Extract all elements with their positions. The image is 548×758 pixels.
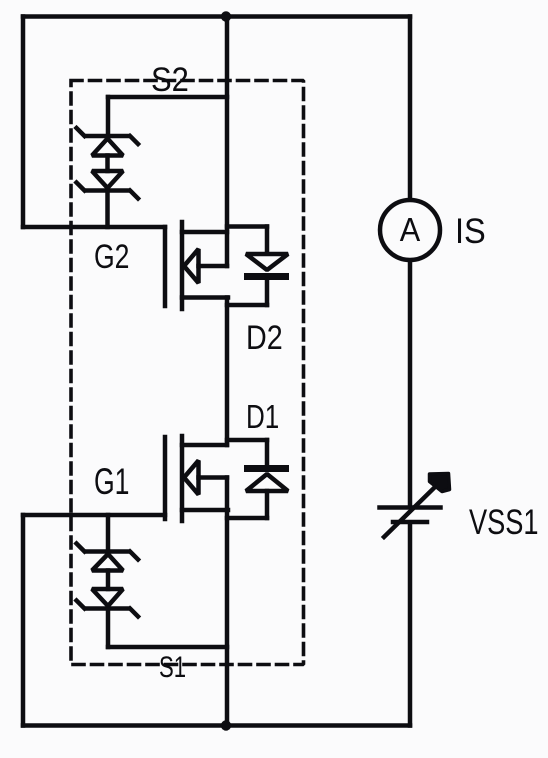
- wire S2 node line: [108, 95, 227, 100]
- wire G1 gate lead: [23, 513, 165, 518]
- wire bottom rail: [23, 723, 410, 728]
- transistor M1 drain stub (top): [182, 443, 227, 448]
- wire TVS lower stack bottom lead: [106, 610, 111, 647]
- transistor M2 channel bar: [180, 222, 185, 309]
- transistor M1 channel bar: [180, 436, 185, 521]
- wire right rail upper segment: [408, 17, 413, 200]
- wire central rail upper segment (S2 net): [225, 17, 230, 267]
- zener diode Z3 (lower TVS, cathode bar up): [77, 544, 139, 571]
- wire TVS lower stack middle: [106, 571, 111, 590]
- svg-text:G2: G2: [94, 237, 129, 276]
- svg-text:D2: D2: [246, 319, 283, 357]
- diode D2 (body diode, cathode down): [246, 227, 288, 306]
- transistor M2 drain stub (bottom): [182, 295, 228, 300]
- wire D1 branch bottom: [227, 516, 267, 521]
- wire S1 node line: [108, 645, 227, 650]
- transistor M1 source stub (bottom): [182, 508, 228, 513]
- wire TVS upper stack top lead: [106, 97, 111, 134]
- wire left rail lower segment: [21, 515, 26, 726]
- source VSS1 long bar: [380, 505, 441, 510]
- zener diode Z1 (upper TVS, cathode bar up): [77, 128, 139, 156]
- transistor M2 gate bar: [163, 227, 168, 306]
- wire M1 body stub: [199, 475, 228, 480]
- transistor M2 source stub (top): [182, 230, 227, 235]
- wire right rail lower segment: [408, 524, 413, 726]
- wire TVS upper stack middle: [105, 156, 110, 172]
- zener diode Z4 (lower TVS, cathode bar down): [77, 589, 139, 617]
- ammeter U1 circle: [380, 200, 440, 260]
- wire TVS lower stack top lead: [106, 515, 111, 550]
- wire TVS upper stack bottom lead: [105, 192, 110, 227]
- wire D2 branch bottom: [227, 303, 267, 308]
- source VSS1 arrowhead: [430, 474, 450, 492]
- wire D2 branch top: [227, 224, 267, 229]
- transistor M2 body arrow: [184, 249, 199, 283]
- svg-text:A: A: [400, 211, 421, 248]
- node bottom junction: [221, 720, 231, 730]
- svg-text:IS: IS: [455, 212, 486, 251]
- wire top rail: [23, 14, 410, 19]
- zener diode Z2 (upper TVS, cathode bar down): [77, 171, 139, 199]
- dashed enclosure box: [71, 81, 304, 665]
- wire G2 gate lead: [23, 225, 165, 230]
- wire right rail middle segment: [408, 261, 413, 505]
- diode D1 (body diode, cathode up): [246, 440, 288, 518]
- svg-text:G1: G1: [94, 461, 129, 502]
- transistor M1 gate bar: [163, 437, 168, 519]
- source VSS1 variability arrow shaft: [384, 486, 436, 537]
- source VSS1 short bar: [393, 520, 427, 525]
- wire D1 branch top: [227, 438, 267, 443]
- svg-text:D1: D1: [246, 399, 279, 436]
- wire central rail middle segment (drain net): [225, 298, 230, 446]
- wire left rail upper segment: [21, 17, 26, 228]
- wire M2 body stub: [199, 264, 228, 269]
- svg-text:S2: S2: [151, 61, 189, 99]
- node top junction: [221, 11, 231, 21]
- wire central rail lower segment (S1 net): [225, 478, 230, 726]
- svg-text:VSS1: VSS1: [469, 503, 539, 542]
- transistor M1 body arrow: [184, 461, 199, 495]
- svg-text:S1: S1: [159, 650, 186, 684]
